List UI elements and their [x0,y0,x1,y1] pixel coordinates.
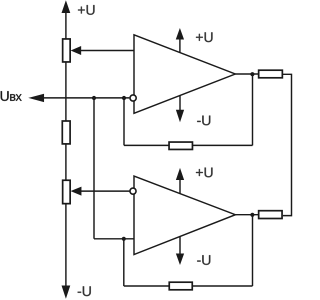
node junction U1 inverting input [122,96,126,100]
label +U op-amp U1 [196,32,213,42]
supply +U arrow U2 [179,179,181,193]
potentiometer R1 [63,39,71,62]
supply -U arrow U1 [179,96,181,111]
resistor R6 (U2 output) [259,211,282,219]
wire U2 feedback horizontal [124,285,253,287]
wire U2 noninverting input horizontal [94,238,134,240]
wire U1 feedback horizontal [124,144,253,146]
supply -U arrow U2 [179,237,181,255]
wire U1 output resistor to right bus, bus, and to U2 resistor [283,74,292,215]
label -U op-amp U1 [197,116,210,126]
op-amp U2 [134,176,235,254]
wire R3 wiper to op-amp U2 inverting input [80,190,130,192]
inverting input bubble U1 [130,95,136,101]
power +U arrow (top of rail) [62,2,70,13]
wire U1 feedback: inverting input down to feedback resistor [123,98,125,145]
label +U top rail [78,5,95,15]
wiper arrow of potentiometer R3 [72,187,81,195]
label +U op-amp U2 [196,168,213,178]
wire R1 wiper to op-amp U1 noninverting input [80,50,134,52]
input arrow Uvx [30,94,44,101]
wire U2 feedback up to noninverting input [123,239,125,286]
inverting input bubble U2 [130,188,136,194]
label -U bottom rail [78,286,91,296]
label -U op-amp U2 [197,255,210,265]
resistor R4 (U1 output) [259,70,283,78]
node junction U1 output [250,72,254,76]
node junction Uvx / line A [92,96,96,100]
wire U2 output [235,214,258,216]
wire left supply rail [65,12,67,286]
op-amp U1 [134,35,235,114]
resistor R5 (U1 feedback) [169,142,192,149]
wire node A vertical: Uvx to U2 noninverting [93,98,95,239]
resistor R7 (U2 feedback) [169,282,192,290]
resistor R2 [62,121,70,144]
wiper arrow of potentiometer R1 [72,47,81,55]
supply +U arrow U1 [179,39,181,53]
label Uvx input [1,91,22,101]
node junction U2 output [250,213,254,217]
wire U2 feedback vertical from output [252,215,254,286]
wire Uvx input line [43,97,129,99]
node junction U2 noninverting input [122,237,126,241]
wire U1 feedback vertical from output [252,74,254,145]
potentiometer R3 [63,180,71,203]
power -U arrow (bottom of rail) [62,286,70,297]
wire U1 output [235,73,258,75]
